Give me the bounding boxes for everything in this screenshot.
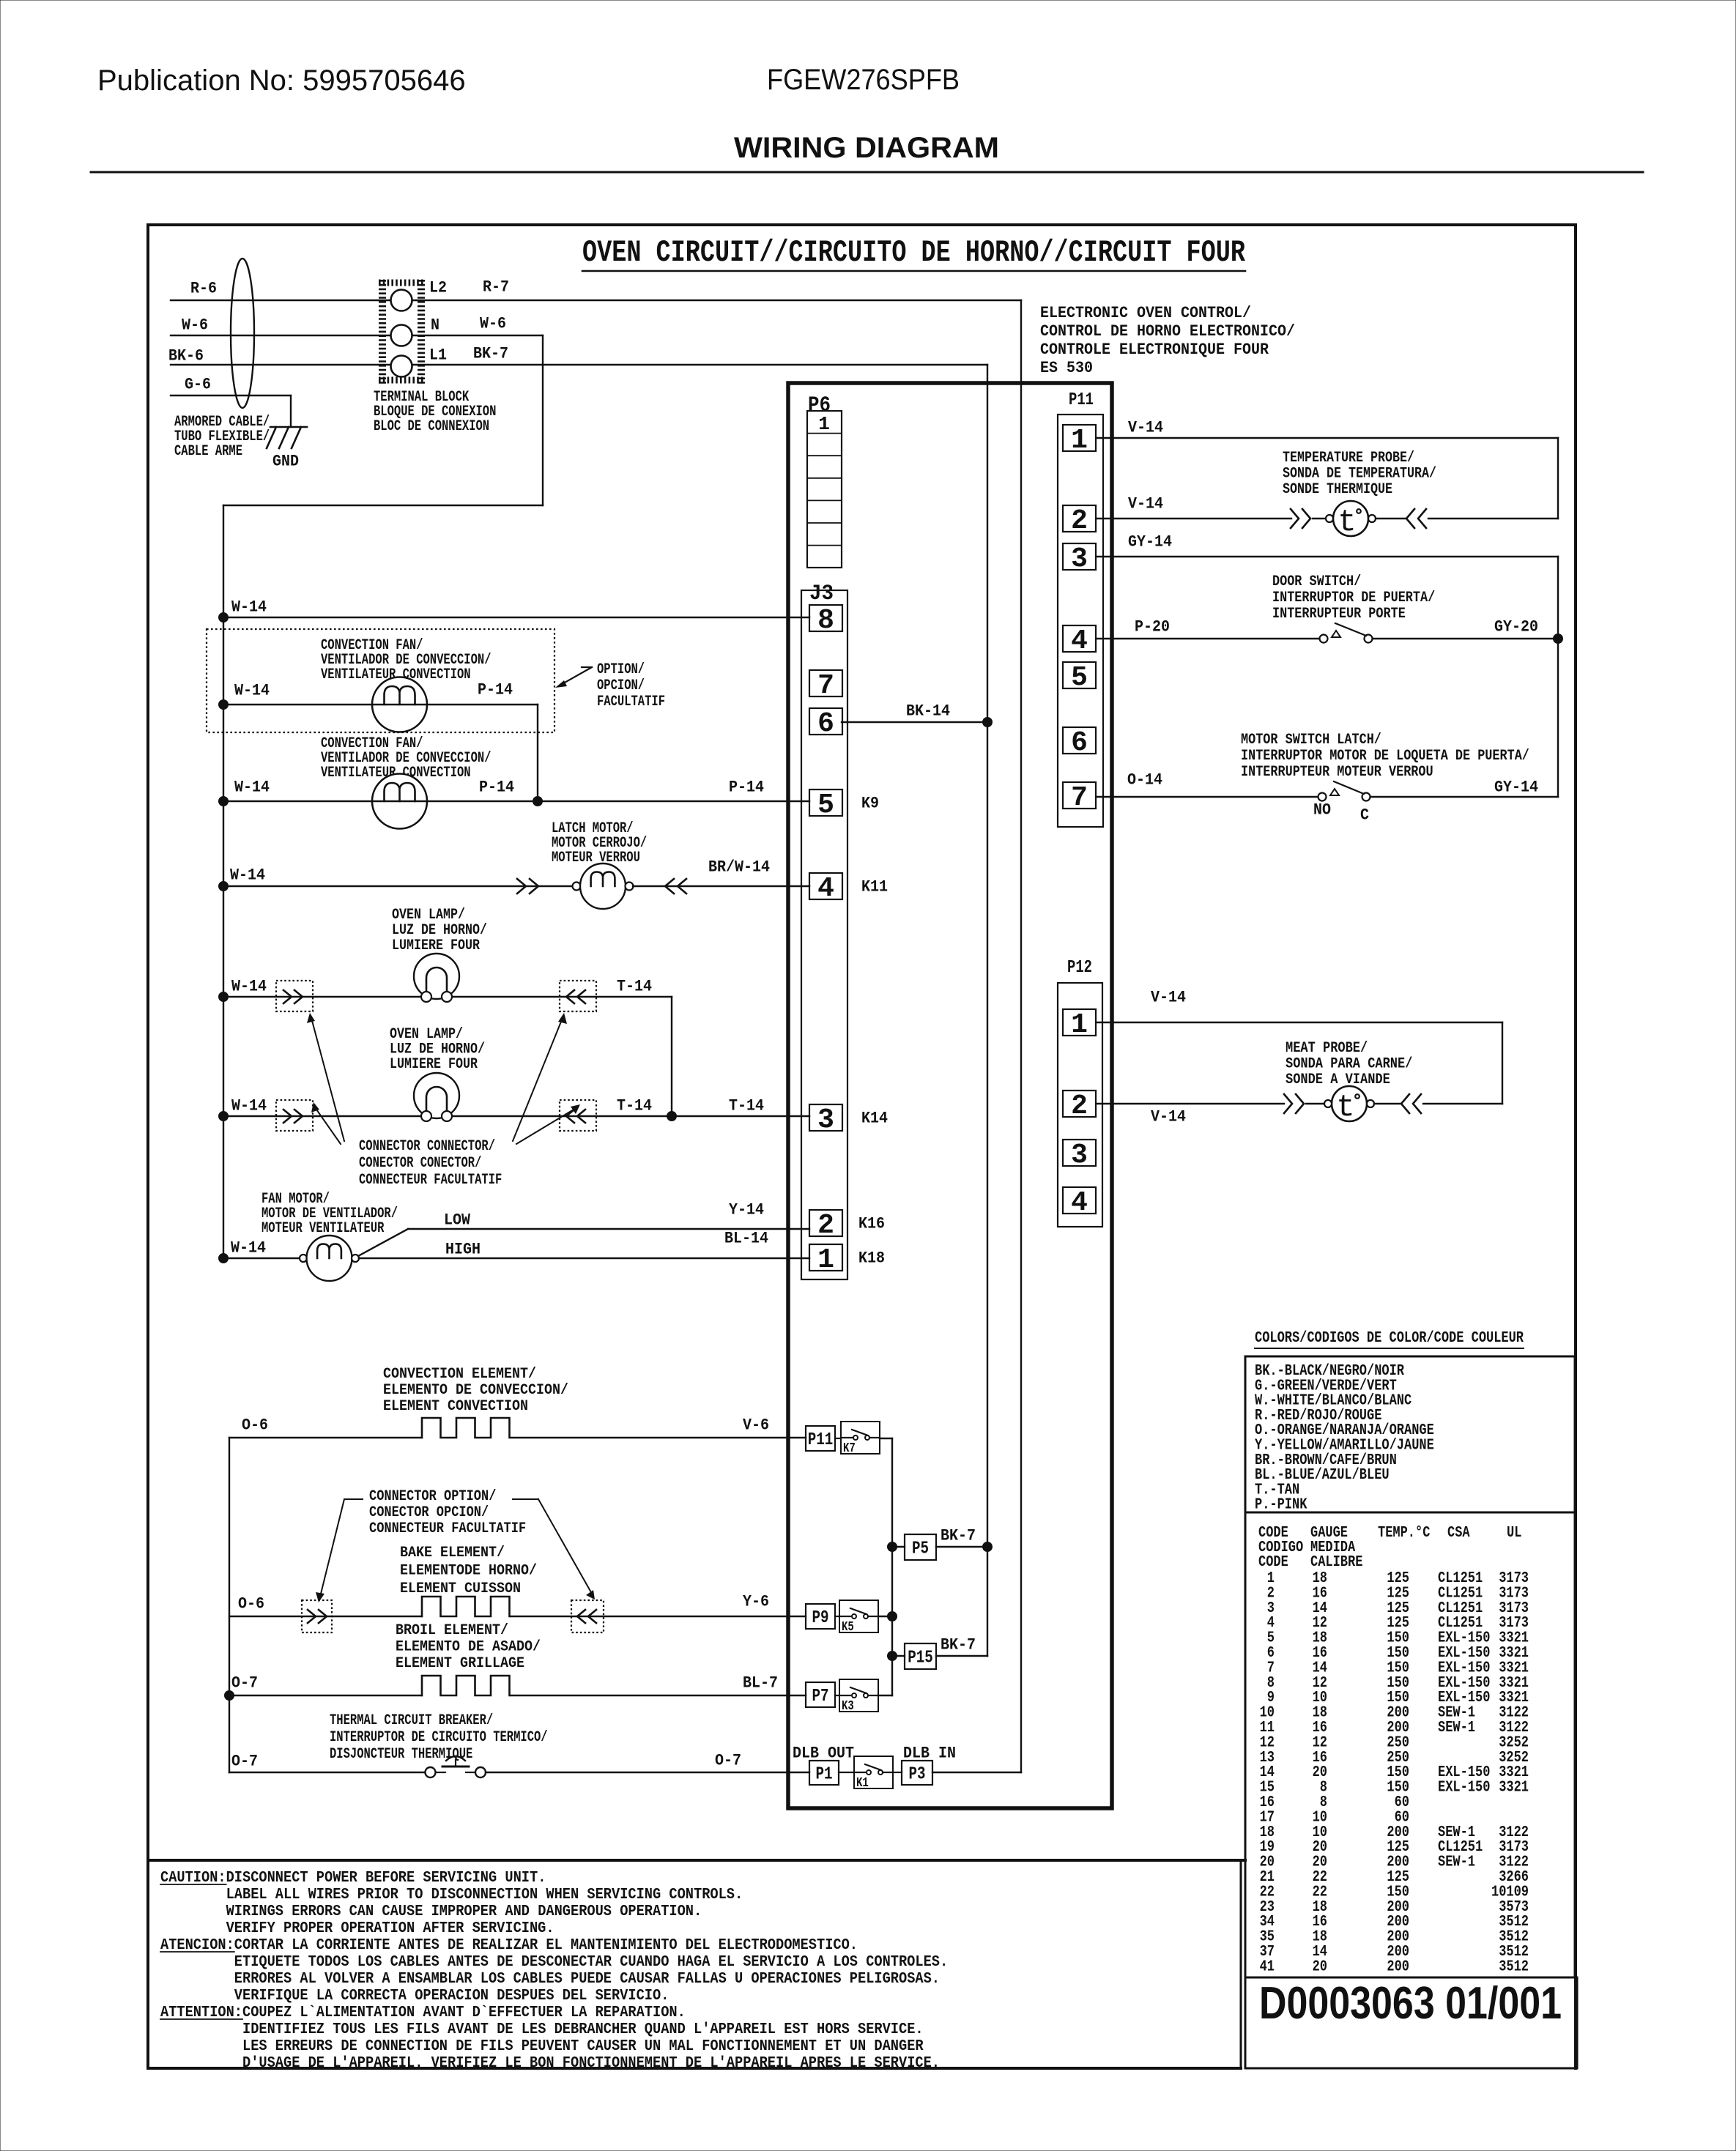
svg-text:2: 2: [1071, 1091, 1088, 1122]
connector box lamp2 left: [276, 1100, 313, 1131]
ground symbol: [270, 426, 307, 428]
connector arrows latch right: [665, 879, 674, 894]
wire W-14 fan motor: [223, 1257, 300, 1259]
svg-text:t: t: [1338, 505, 1356, 540]
wire Y-6: [511, 1616, 806, 1617]
terminal L2: [391, 290, 412, 311]
node W-14 latch junction: [219, 882, 229, 891]
svg-text:6: 6: [817, 708, 834, 740]
wire fan1 to fan2 vertical: [537, 705, 538, 801]
svg-text:1: 1: [818, 413, 830, 435]
meat probe: [1332, 1086, 1367, 1121]
wire O-14 pin7: [1097, 796, 1318, 798]
svg-text:COLORS/CODIGOS DE COLOR/CODE C: COLORS/CODIGOS DE COLOR/CODE COULEUR: [1255, 1330, 1524, 1347]
svg-text:BK-6: BK-6: [168, 347, 204, 365]
svg-text:DOOR SWITCH/: DOOR SWITCH/: [1272, 573, 1361, 590]
connector P7 relay: [806, 1682, 835, 1707]
svg-text:IDENTIFIEZ TOUS LES FILS AVANT: IDENTIFIEZ TOUS LES FILS AVANT DE LES DE…: [242, 2021, 924, 2038]
electronic oven control box ES530: [788, 383, 1112, 1808]
svg-text:W-14: W-14: [234, 779, 270, 797]
door switch: [1320, 635, 1328, 643]
relay switch K7: [841, 1422, 880, 1454]
P12 pin 4: [1063, 1187, 1096, 1214]
svg-text:TEMP.°C: TEMP.°C: [1378, 1525, 1431, 1542]
connector P5: [905, 1534, 936, 1560]
J3 pin 4: [809, 873, 842, 899]
svg-text:V-14: V-14: [1151, 989, 1186, 1007]
svg-text:P5: P5: [912, 1539, 929, 1559]
svg-text:LUMIERE FOUR: LUMIERE FOUR: [392, 937, 480, 954]
wire to P5: [892, 1546, 905, 1548]
wire BR/W-14: [633, 885, 809, 887]
svg-text:LES ERREURS DE CONNECTION DE F: LES ERREURS DE CONNECTION DE FILS PEUVEN…: [242, 2038, 924, 2055]
svg-text:200: 200: [1387, 1958, 1409, 1975]
svg-text:2: 2: [817, 1210, 834, 1241]
connector option leaders: [344, 1498, 363, 1500]
convection element: [422, 1418, 510, 1438]
broil element: [422, 1676, 510, 1695]
svg-text:C: C: [1360, 806, 1369, 825]
svg-text:SONDE A VIANDE: SONDE A VIANDE: [1286, 1071, 1390, 1088]
main diagram frame: [148, 223, 1576, 226]
svg-text:6: 6: [1071, 727, 1088, 759]
svg-text:W-14: W-14: [231, 978, 267, 996]
svg-text:W-14: W-14: [230, 866, 265, 885]
wire GY-14 pin3: [1097, 556, 1558, 557]
svg-text:W-6: W-6: [480, 315, 506, 333]
node GY-20 junction: [1554, 634, 1563, 644]
svg-text:ELECTRONIC OVEN CONTROL/: ELECTRONIC OVEN CONTROL/: [1040, 304, 1251, 322]
wire V-14 P12 pin2: [1097, 1103, 1284, 1104]
svg-text:1: 1: [817, 1244, 834, 1276]
svg-text:O-6: O-6: [238, 1595, 264, 1613]
svg-text:P.-PINK: P.-PINK: [1255, 1497, 1307, 1514]
svg-text:INTERRUPTOR MOTOR DE LOQUETA D: INTERRUPTOR MOTOR DE LOQUETA DE PUERTA/: [1241, 748, 1529, 765]
svg-text:41: 41: [1260, 1958, 1275, 1975]
svg-text:K11: K11: [861, 878, 888, 896]
svg-text:ETIQUETE TODOS LOS CABLES ANTE: ETIQUETE TODOS LOS CABLES ANTES DE DESCO…: [234, 1954, 948, 1971]
header rule: [91, 171, 1643, 174]
svg-text:CONECTOR CONECTOR/: CONECTOR CONECTOR/: [359, 1155, 481, 1172]
svg-text:CONNECTOR OPTION/: CONNECTOR OPTION/: [369, 1488, 496, 1505]
wire P-20 pin4: [1097, 638, 1319, 639]
wire: [1376, 518, 1405, 519]
wire to P15: [892, 1655, 905, 1657]
svg-text:THERMAL CIRCUIT BREAKER/: THERMAL CIRCUIT BREAKER/: [330, 1712, 493, 1729]
wire K3 out: [878, 1695, 892, 1696]
convection fan 1 motor: [372, 677, 427, 732]
svg-text:BK-7: BK-7: [473, 345, 508, 363]
P11 pin 1: [1063, 425, 1096, 451]
connector leader lines: [311, 1018, 344, 1141]
lower bus vertical: [229, 1438, 230, 1772]
wire temp probe loop vertical: [1557, 438, 1559, 519]
svg-text:BK-14: BK-14: [906, 702, 950, 721]
svg-text:FGEW276SPFB: FGEW276SPFB: [767, 64, 960, 96]
svg-text:O-7: O-7: [715, 1752, 741, 1770]
connector arrows latch left: [517, 879, 526, 894]
option leader: [582, 666, 592, 668]
svg-text:7: 7: [817, 670, 834, 702]
wire BL-7 into P7: [835, 1695, 839, 1696]
svg-text:N: N: [431, 316, 439, 335]
svg-text:CABLE ARME: CABLE ARME: [174, 443, 242, 460]
svg-text:1: 1: [1071, 1009, 1088, 1041]
svg-text:BK-7: BK-7: [941, 1636, 976, 1654]
P11 pin 2: [1063, 505, 1096, 532]
wire P-14 fan2 to J3 pin5: [427, 800, 809, 802]
motor latch switch: [1318, 793, 1327, 801]
svg-text:BLOC DE CONNEXION: BLOC DE CONNEXION: [374, 418, 489, 435]
svg-text:3512: 3512: [1499, 1958, 1529, 1975]
svg-text:OPCION/: OPCION/: [597, 677, 645, 694]
svg-text:CONTROLE ELECTRONIQUE FOUR: CONTROLE ELECTRONIQUE FOUR: [1040, 341, 1269, 359]
svg-text:P-14: P-14: [478, 681, 513, 699]
svg-text:K18: K18: [858, 1249, 885, 1268]
svg-text:Y-14: Y-14: [729, 1201, 764, 1219]
svg-text:LABEL ALL WIRES PRIOR TO DISCO: LABEL ALL WIRES PRIOR TO DISCONNECTION W…: [226, 1887, 743, 1903]
svg-text:P11: P11: [808, 1430, 834, 1450]
wire convection element: [229, 1437, 422, 1438]
svg-text:4: 4: [817, 873, 834, 904]
wire W-14 lamp2: [223, 1115, 672, 1117]
wire bake element: [229, 1616, 422, 1617]
wire LOW diagonal: [358, 1229, 408, 1256]
svg-text:Y-6: Y-6: [743, 1593, 769, 1611]
svg-text:P1: P1: [816, 1765, 833, 1785]
svg-text:W-14: W-14: [231, 1097, 267, 1115]
bake element: [422, 1597, 510, 1616]
wire BK-7 from P5: [936, 1546, 987, 1548]
wire GY-14: [1370, 796, 1558, 798]
svg-text:P7: P7: [812, 1687, 829, 1706]
P12 pin 3: [1063, 1140, 1096, 1166]
relay switch K3: [839, 1679, 878, 1712]
P11 pin 5: [1063, 662, 1096, 688]
svg-text:V-14: V-14: [1128, 419, 1163, 437]
P11 pin 3: [1063, 543, 1096, 570]
svg-text:SONDA PARA CARNE/: SONDA PARA CARNE/: [1286, 1056, 1412, 1073]
svg-text:K9: K9: [861, 795, 879, 813]
drawing number box: [1245, 1977, 1577, 2068]
svg-text:P-14: P-14: [479, 779, 514, 797]
wire V-14 P12 pin1: [1097, 1022, 1502, 1023]
wire thermal breaker: [229, 1772, 425, 1773]
svg-text:UL: UL: [1507, 1525, 1521, 1542]
J3 pin 1: [809, 1244, 842, 1271]
svg-text:O-6: O-6: [242, 1416, 268, 1435]
wire lamp1 T-14 vertical: [671, 997, 672, 1116]
svg-text:K5: K5: [842, 1620, 854, 1635]
wire K7 out: [880, 1438, 892, 1439]
option dotted box: [207, 629, 554, 732]
svg-text:OVEN CIRCUIT//CIRCUITO DE HORN: OVEN CIRCUIT//CIRCUITO DE HORNO//CIRCUIT…: [582, 235, 1246, 270]
connector P1: [809, 1761, 839, 1785]
svg-text:O-7: O-7: [231, 1753, 258, 1771]
svg-text:R-7: R-7: [483, 278, 509, 297]
wire V-6 into P11: [835, 1438, 841, 1439]
svg-text:T-14: T-14: [729, 1097, 764, 1115]
svg-text:R-6: R-6: [190, 280, 217, 298]
svg-text:ELEMENTO DE CONVECCION/: ELEMENTO DE CONVECCION/: [383, 1382, 568, 1399]
svg-text:VERIFIQUE LA CORRECTA OPERACIO: VERIFIQUE LA CORRECTA OPERACION DESPUES …: [234, 1988, 669, 2005]
svg-text:SONDE THERMIQUE: SONDE THERMIQUE: [1283, 481, 1392, 498]
svg-text:CODE: CODE: [1258, 1554, 1288, 1571]
connector arrows meat probe left: [1284, 1094, 1292, 1113]
svg-text:SEW-1: SEW-1: [1438, 1854, 1475, 1871]
wire P3 to R-7 vertical: [932, 1772, 1021, 1773]
temperature probe: [1333, 501, 1368, 536]
node P5 junction: [888, 1542, 897, 1552]
svg-text:P15: P15: [908, 1649, 933, 1668]
svg-text:2: 2: [1071, 505, 1088, 537]
wire G-6 ground line: [171, 395, 291, 396]
svg-text:BL-14: BL-14: [724, 1230, 768, 1248]
wire V-14 pin2: [1097, 518, 1291, 519]
svg-text:4: 4: [1071, 625, 1088, 657]
svg-text:HIGH: HIGH: [445, 1241, 481, 1259]
svg-text:CSA: CSA: [1447, 1525, 1470, 1542]
connector box bake right: [571, 1600, 604, 1632]
svg-text:GND: GND: [272, 453, 299, 471]
wire BL-14 HIGH to pin1: [359, 1257, 809, 1259]
connector box lamp1 left: [276, 981, 313, 1011]
svg-text:3321: 3321: [1499, 1780, 1529, 1797]
connector arrows meat probe right: [1401, 1094, 1409, 1113]
ground wire drop: [290, 395, 292, 427]
wire gauge table box: [1245, 1512, 1575, 1977]
svg-text:V-6: V-6: [743, 1416, 769, 1435]
svg-text:V-14: V-14: [1128, 495, 1163, 513]
node O-7 junction: [225, 1691, 234, 1701]
node BK-14/BK-7 junction: [983, 718, 993, 727]
svg-text:W-14: W-14: [231, 598, 267, 617]
svg-text:CONECTOR OPCION/: CONECTOR OPCION/: [369, 1504, 489, 1521]
svg-text:ELEMENT CUISSON: ELEMENT CUISSON: [400, 1580, 521, 1597]
svg-text:T-14: T-14: [617, 1097, 652, 1115]
svg-text:D'USAGE DE L'APPAREIL. VERIFIE: D'USAGE DE L'APPAREIL. VERIFIEZ LE BON F…: [242, 2055, 940, 2072]
svg-text:INTERRUPTEUR MOTEUR VERROU: INTERRUPTEUR MOTEUR VERROU: [1241, 764, 1433, 781]
svg-text:1: 1: [1071, 425, 1088, 456]
terminal block hatched body: [379, 280, 386, 384]
J3 pin 2: [809, 1210, 842, 1236]
svg-text:SEW-1: SEW-1: [1438, 1720, 1475, 1736]
svg-text:CALIBRE: CALIBRE: [1310, 1554, 1362, 1571]
wire R-7 vertical: [1020, 300, 1022, 1772]
svg-text:L2: L2: [429, 279, 447, 297]
svg-text:CONNECTEUR FACULTATIF: CONNECTEUR FACULTATIF: [369, 1520, 526, 1537]
svg-text:BK-7: BK-7: [941, 1527, 976, 1545]
wire BK-6/BK-7 L1 line: [171, 364, 987, 365]
svg-text:P11: P11: [1069, 390, 1094, 410]
relay output vertical: [891, 1438, 893, 1695]
wire T-14 to J3 pin3: [672, 1115, 809, 1117]
svg-text:ELEMENT GRILLAGE: ELEMENT GRILLAGE: [396, 1655, 524, 1672]
svg-text:W-14: W-14: [234, 682, 270, 700]
oven lamp 2: [414, 1073, 459, 1118]
svg-text:LUZ DE HORNO/: LUZ DE HORNO/: [392, 922, 487, 939]
svg-text:L1: L1: [429, 346, 447, 365]
svg-text:CONNECTOR CONNECTOR/: CONNECTOR CONNECTOR/: [359, 1138, 495, 1155]
svg-text:INTERRUPTEUR PORTE: INTERRUPTEUR PORTE: [1272, 606, 1406, 623]
connector box bake left: [302, 1600, 332, 1632]
svg-text:K14: K14: [861, 1110, 888, 1128]
connector P3: [902, 1761, 932, 1785]
svg-text:5: 5: [1071, 662, 1088, 694]
svg-text:3: 3: [1071, 1140, 1088, 1171]
svg-text:V-14: V-14: [1151, 1108, 1186, 1126]
svg-text:K1: K1: [856, 1776, 869, 1791]
svg-text:BR/W-14: BR/W-14: [708, 858, 770, 877]
svg-text:ELEMENTO DE ASADO/: ELEMENTO DE ASADO/: [396, 1639, 541, 1656]
terminal L1: [391, 356, 412, 377]
svg-text:D0003063 01/001: D0003063 01/001: [1259, 1978, 1562, 2029]
latch motor: [573, 883, 581, 891]
node W-14 fan motor junction: [219, 1254, 229, 1263]
svg-text:Publication No: 5995705646: Publication No: 5995705646: [97, 64, 466, 97]
svg-text:MOTOR SWITCH LATCH/: MOTOR SWITCH LATCH/: [1241, 732, 1381, 748]
svg-text:O-7: O-7: [231, 1674, 258, 1693]
wire W-6 N line: [171, 335, 543, 336]
connector P15: [905, 1643, 936, 1669]
wire Y-6 into P9: [835, 1616, 839, 1617]
P12 pin 2: [1063, 1091, 1096, 1117]
connector box lamp2 right: [560, 1100, 596, 1131]
wire W-14 latch motor: [223, 885, 573, 887]
connector arrows temp probe left: [1291, 509, 1299, 528]
wire door/latch loop vertical: [1557, 557, 1559, 797]
relay switch K5: [839, 1600, 878, 1632]
wire GY-20: [1373, 638, 1558, 639]
wire R-6/R-7 L2 line: [171, 300, 1021, 301]
thermal circuit breaker: [426, 1767, 436, 1777]
wire P-14 fan1: [427, 704, 538, 705]
svg-text:VERIFY PROPER OPERATION AFTER: VERIFY PROPER OPERATION AFTER SERVICING.: [226, 1920, 554, 1937]
node BK-7 P5 junction: [983, 1542, 993, 1552]
svg-text:TEMPERATURE PROBE/: TEMPERATURE PROBE/: [1283, 450, 1414, 467]
P11 pin 6: [1063, 727, 1096, 754]
svg-text:K7: K7: [843, 1441, 856, 1456]
convection fan 2 motor: [372, 774, 427, 829]
wire W-14 fan2: [223, 800, 372, 802]
wire W-14 lamp1: [223, 996, 672, 998]
svg-text:G-6: G-6: [185, 376, 211, 394]
wire Y-14 LOW to pin2: [408, 1228, 809, 1230]
wire P1 to K1: [839, 1772, 854, 1773]
svg-text:3: 3: [817, 1104, 834, 1136]
svg-text:7: 7: [1071, 782, 1088, 814]
svg-text:5: 5: [817, 790, 834, 821]
color code list box: [1245, 1356, 1575, 1512]
wire: [1374, 1103, 1400, 1104]
wire W-14 bus vertical: [223, 505, 224, 1258]
caution box: [1240, 1860, 1242, 2068]
svg-text:BAKE ELEMENT/: BAKE ELEMENT/: [400, 1545, 505, 1561]
svg-text:WIRING DIAGRAM: WIRING DIAGRAM: [734, 132, 999, 164]
svg-text:MOTEUR VENTILATEUR: MOTEUR VENTILATEUR: [261, 1220, 384, 1237]
svg-text:MEAT PROBE/: MEAT PROBE/: [1286, 1040, 1368, 1057]
J3 pin 7: [809, 670, 842, 696]
J3 pin 6: [809, 708, 842, 735]
svg-text:20: 20: [1313, 1958, 1327, 1975]
J3 pin 8: [809, 605, 842, 631]
node W-14 fan1 junction: [219, 700, 229, 710]
svg-text:WIRINGS ERRORS CAN CAUSE IMPRO: WIRINGS ERRORS CAN CAUSE IMPROPER AND DA…: [226, 1903, 702, 1920]
svg-text:K3: K3: [842, 1699, 854, 1714]
armored cable oval: [231, 259, 254, 408]
svg-text:LUMIERE FOUR: LUMIERE FOUR: [390, 1056, 478, 1073]
svg-text:DISJONCTEUR THERMIQUE: DISJONCTEUR THERMIQUE: [330, 1746, 472, 1763]
P11 pin 4: [1063, 625, 1096, 652]
wire V-6: [511, 1437, 806, 1438]
wire O-7 to P1: [486, 1772, 809, 1773]
connector box lamp1 right: [560, 981, 596, 1011]
svg-text:O-14: O-14: [1127, 771, 1162, 790]
svg-text:BL-7: BL-7: [743, 1674, 778, 1693]
wire: [1306, 1103, 1324, 1104]
wire meat probe loop vertical: [1502, 1022, 1503, 1104]
J3 pin 3: [809, 1104, 842, 1131]
wire: [1423, 1103, 1502, 1104]
svg-text:T-14: T-14: [617, 978, 652, 996]
svg-text:3: 3: [1071, 543, 1088, 575]
svg-text:J3: J3: [809, 582, 834, 606]
connector P9 relay: [806, 1604, 835, 1629]
svg-text:NO: NO: [1313, 801, 1331, 820]
svg-text:P9: P9: [812, 1608, 829, 1628]
svg-text:P-20: P-20: [1135, 618, 1170, 636]
svg-text:BROIL ELEMENT/: BROIL ELEMENT/: [396, 1622, 508, 1639]
svg-text:ELEMENTODE HORNO/: ELEMENTODE HORNO/: [400, 1563, 537, 1580]
svg-text:LOW: LOW: [444, 1211, 471, 1230]
terminal N: [391, 325, 412, 346]
wire BK-14 from J3 pin6: [842, 721, 987, 723]
svg-text:GY-20: GY-20: [1494, 618, 1538, 636]
J3 pin 5: [809, 790, 842, 816]
connector P11 relay: [806, 1426, 835, 1451]
relay switch K1: [854, 1756, 893, 1788]
wire K5 out: [878, 1616, 892, 1617]
wire W bus horizontal: [223, 505, 543, 506]
node T-14 junction: [667, 1112, 677, 1121]
P12 pin 1: [1063, 1009, 1096, 1036]
fan motor: [300, 1255, 307, 1262]
svg-text:t: t: [1336, 1090, 1354, 1125]
svg-text:ERRORES AL VOLVER A ENSAMBLAR: ERRORES AL VOLVER A ENSAMBLAR LOS CABLES…: [234, 1971, 940, 1988]
wire: [1313, 518, 1329, 519]
svg-text:8: 8: [817, 605, 834, 636]
svg-text:ES 530: ES 530: [1040, 359, 1093, 377]
connector arrows temp probe right: [1406, 509, 1414, 528]
svg-text:FACULTATIF: FACULTATIF: [597, 694, 665, 710]
node P15 junction: [888, 1652, 897, 1661]
node W-14 pin8 junction: [219, 613, 229, 623]
P11 pin 7: [1063, 782, 1096, 809]
svg-text:P-14: P-14: [729, 779, 764, 797]
svg-text:OPTION/: OPTION/: [597, 661, 645, 678]
wire W-6 vertical: [542, 335, 544, 505]
svg-text:CONTROL DE HORNO ELECTRONICO/: CONTROL DE HORNO ELECTRONICO/: [1040, 322, 1295, 341]
node W-14 lamp2 junction: [219, 1112, 229, 1121]
svg-text:SONDA DE TEMPERATURA/: SONDA DE TEMPERATURA/: [1283, 466, 1436, 483]
wire K1 to P3: [893, 1772, 902, 1773]
wire BK-7 vertical: [987, 365, 988, 1656]
oven lamp 1: [414, 954, 459, 999]
wire W-14 to J3 pin 8: [223, 617, 809, 618]
wire V-14 pin1: [1097, 437, 1558, 439]
svg-text:4: 4: [1071, 1187, 1088, 1219]
node K5 output junction: [888, 1612, 897, 1621]
